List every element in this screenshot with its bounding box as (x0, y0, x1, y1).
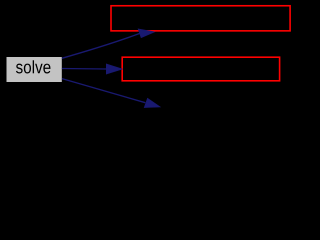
node solve (current function, grey box) (7, 57, 62, 82)
arrowhead solve->N3 (144, 98, 160, 107)
node N2 (middle truncated callee, red outline) (122, 57, 279, 81)
edge solve->N3 (wire to hidden node) (62, 79, 145, 103)
node N1 (top truncated callee, red outline) (111, 6, 290, 31)
arrowhead solve->N1 (138, 29, 155, 38)
edge solve->N1 (wire) (62, 33, 140, 58)
arrowhead solve->N2 (106, 64, 122, 74)
edge solve->N2 (wire) (62, 68, 107, 71)
